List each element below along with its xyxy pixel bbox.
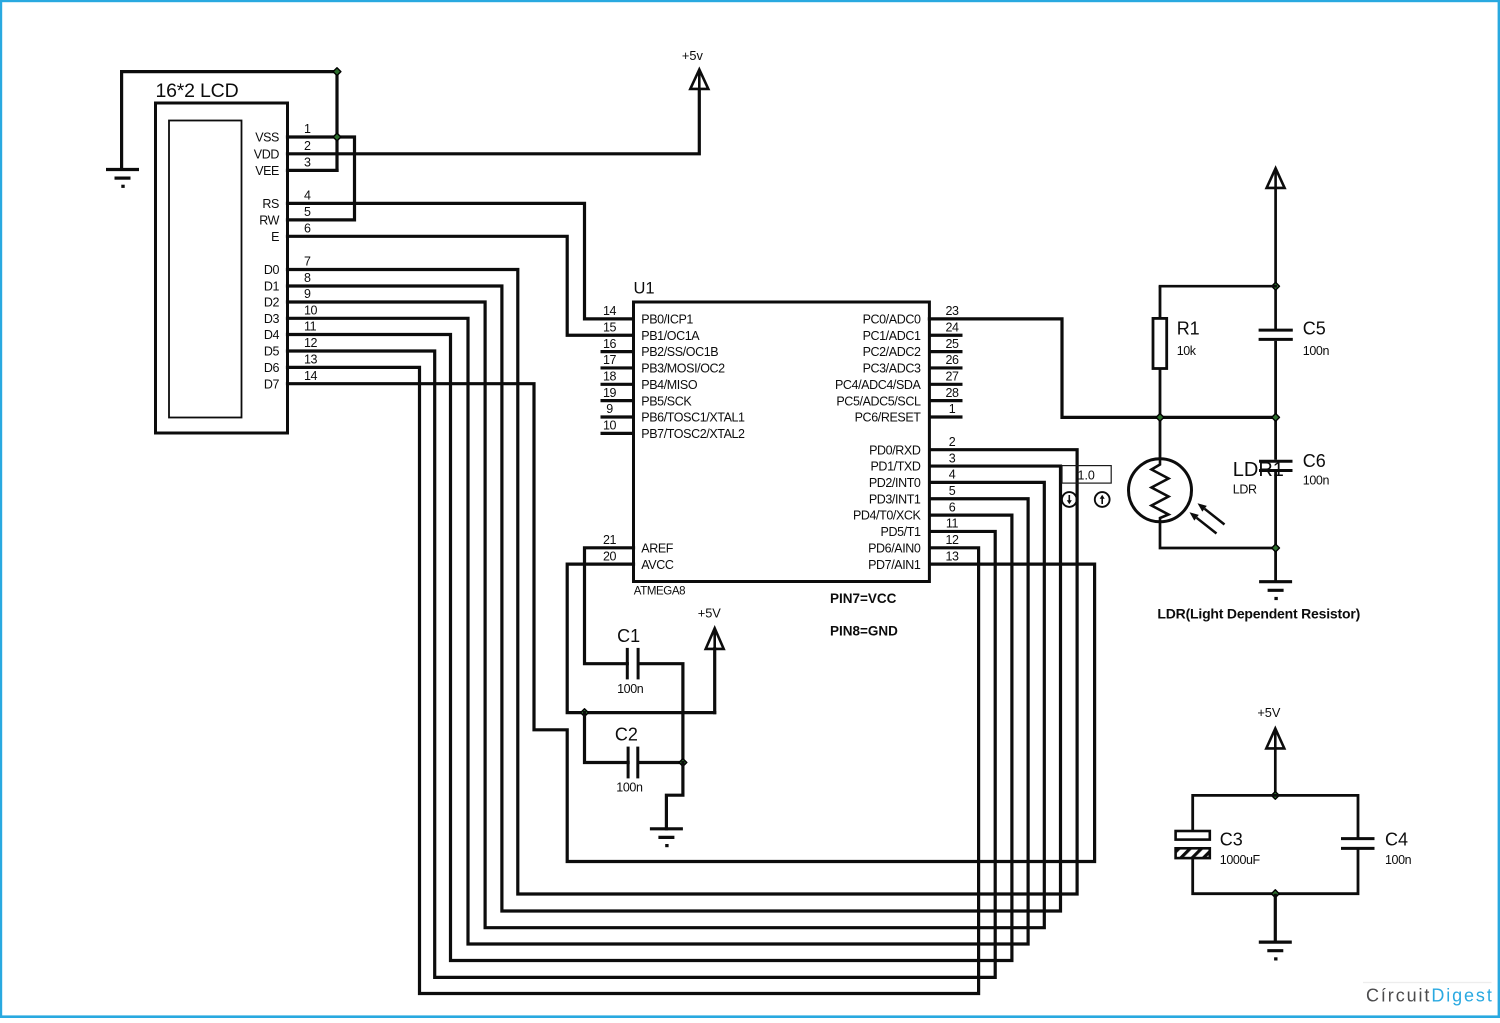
svg-text:100n: 100n (617, 682, 644, 696)
svg-text:100n: 100n (1303, 344, 1330, 358)
U1 pin 10 PB7/TOSC2/XTAL2 (601, 419, 746, 441)
wire D5 to PD5 (288, 351, 996, 977)
svg-text:R1: R1 (1177, 318, 1200, 338)
wire GND to LCD VSS net (122, 72, 337, 171)
svg-text:+5v: +5v (682, 48, 704, 63)
svg-text:17: 17 (603, 353, 617, 367)
svg-text:PC5/ADC5/SCL: PC5/ADC5/SCL (836, 394, 921, 408)
wire VDD to +5v (288, 89, 700, 154)
svg-text:6: 6 (949, 500, 956, 514)
svg-text:11: 11 (946, 517, 959, 531)
svg-text:U1: U1 (634, 280, 655, 298)
svg-text:7: 7 (304, 255, 311, 269)
svg-text:RS: RS (262, 197, 279, 211)
resistor R1 (1153, 286, 1167, 459)
wire +5V to C3/C4 top (1274, 748, 1277, 795)
wire +5V mid stem (713, 649, 716, 713)
C4 value 100n (1385, 853, 1412, 867)
LCD pin 14 D7 (264, 369, 318, 391)
note LDR(Light Dependent Resistor) (1157, 606, 1360, 622)
U1 pin 21 AREF (603, 533, 674, 555)
CircuitDigest logo (1363, 982, 1494, 1006)
svg-text:10k: 10k (1177, 344, 1197, 358)
svg-text:PD7/AIN1: PD7/AIN1 (868, 558, 921, 572)
power +5V supply top (690, 70, 708, 90)
svg-text:RW: RW (259, 214, 279, 228)
wire D2 to PD2 (288, 302, 1045, 928)
wire RS to U1 PB0 (288, 203, 634, 319)
svg-text:5: 5 (304, 205, 311, 219)
svg-text:26: 26 (945, 353, 959, 367)
svg-text:2: 2 (949, 435, 956, 449)
microcontroller U1 ATMEGA8 (634, 280, 930, 598)
capacitor C3 polarized (1176, 831, 1210, 858)
svg-text:3: 3 (949, 451, 956, 465)
junction divider at C5/C6 (1272, 414, 1280, 422)
U1 pin 13 PD7/AIN1 (868, 549, 959, 571)
svg-text:PD2/INT0: PD2/INT0 (869, 476, 921, 490)
svg-text:100n: 100n (1385, 853, 1412, 867)
wire D0 to PD0 (288, 270, 1078, 895)
svg-text:3: 3 (304, 156, 311, 170)
svg-text:13: 13 (304, 353, 318, 367)
svg-text:VSS: VSS (255, 131, 279, 145)
svg-text:28: 28 (945, 386, 959, 400)
R1 label (1177, 318, 1200, 338)
C3 label (1220, 829, 1243, 849)
svg-text:9: 9 (606, 402, 613, 416)
svg-text:14: 14 (603, 304, 617, 318)
net label +5V br net (1257, 705, 1281, 720)
svg-text:C6: C6 (1303, 451, 1326, 471)
wire PC0 to LDR divider node (929, 319, 1275, 418)
svg-text:PD5/T1: PD5/T1 (881, 525, 921, 539)
svg-text:PB2/SS/OC1B: PB2/SS/OC1B (641, 345, 718, 359)
C2 value 100n (616, 781, 643, 795)
junction AVCC/C2 node (581, 709, 589, 717)
U1 pin 28 PC5/ADC5/SCL (836, 386, 962, 408)
svg-text:8: 8 (304, 271, 311, 285)
junction top wire (333, 68, 341, 76)
power +5V supply bottom right (1266, 729, 1284, 749)
C5 label (1303, 318, 1326, 338)
LCD pin 10 D3 (264, 304, 318, 326)
wire C3/C4 loop bottom (1193, 850, 1358, 894)
U1 pin 15 PB1/OC1A (603, 320, 700, 342)
LCD pin 1 VSS (255, 122, 311, 144)
svg-text:+5V: +5V (1257, 705, 1281, 720)
svg-text:9: 9 (304, 287, 311, 301)
U1 pin 4 PD2/INT0 (869, 468, 956, 490)
LCD pin 13 D6 (264, 353, 318, 375)
svg-text:4: 4 (304, 189, 311, 203)
LDR1 light dependent resistor (1129, 459, 1192, 522)
probe arrow up indicator (1095, 492, 1110, 507)
svg-text:ATMEGA8: ATMEGA8 (634, 586, 685, 598)
LCD pin 3 VEE (255, 156, 311, 178)
U1 pin 2 PD0/RXD (869, 435, 956, 457)
svg-text:D2: D2 (264, 296, 280, 310)
probe readout 1.0 (1062, 466, 1111, 484)
svg-text:1: 1 (949, 402, 956, 416)
U1 pin 3 PD1/TXD (871, 451, 956, 473)
svg-text:PB3/MOSI/OC2: PB3/MOSI/OC2 (641, 362, 725, 376)
svg-text:PIN7=VCC: PIN7=VCC (830, 591, 897, 606)
junction R1 branch (1272, 282, 1280, 290)
C1 label (617, 626, 640, 646)
svg-text:LDR: LDR (1233, 483, 1257, 497)
ground near LCD (106, 170, 139, 187)
svg-text:PB5/SCK: PB5/SCK (641, 394, 692, 408)
LDR1 value LDR (1233, 483, 1257, 497)
capacitor C4 (1341, 839, 1375, 849)
LCD pin 2 VDD (254, 139, 311, 161)
power +5V supply middle (706, 628, 724, 649)
svg-text:AREF: AREF (641, 541, 674, 555)
svg-text:14: 14 (304, 369, 318, 383)
svg-text:C2: C2 (615, 724, 638, 744)
svg-text:PC6/RESET: PC6/RESET (855, 411, 922, 425)
svg-text:PIN8=GND: PIN8=GND (830, 624, 898, 639)
svg-text:1: 1 (304, 122, 311, 136)
svg-text:PD1/TXD: PD1/TXD (871, 460, 921, 474)
LCD pin 11 D4 (264, 320, 317, 342)
junction divider at R1 (1156, 414, 1164, 422)
svg-text:D1: D1 (264, 280, 280, 294)
LDR light arrows (1190, 503, 1225, 533)
U1 pin 5 PD3/INT1 (869, 484, 956, 506)
capacitor C2 (628, 747, 638, 779)
wire E to U1 PB1 (288, 236, 634, 335)
svg-text:AVCC: AVCC (641, 558, 674, 572)
U1 pin 9 PB6/TOSC1/XTAL1 (601, 402, 746, 424)
svg-text:15: 15 (603, 320, 617, 334)
svg-text:23: 23 (945, 304, 959, 318)
svg-text:10: 10 (304, 304, 318, 318)
wire VEE stub (288, 169, 338, 172)
svg-text:21: 21 (603, 533, 617, 547)
junction LDR gnd node (1272, 544, 1280, 552)
U1 pin 1 PC6/RESET (855, 402, 963, 424)
wire AREF to C1 (585, 548, 634, 664)
LCD pin 7 D0 (264, 255, 311, 277)
svg-text:D7: D7 (264, 377, 280, 391)
svg-text:PB7/TOSC2/XTAL2: PB7/TOSC2/XTAL2 (641, 427, 745, 441)
wire VSS to RW (288, 137, 355, 220)
C1 value 100n (617, 682, 644, 696)
svg-text:PD6/AIN0: PD6/AIN0 (868, 541, 921, 555)
ground under C6 (1259, 582, 1292, 599)
LCD pin 9 D2 (264, 287, 311, 309)
svg-text:VDD: VDD (254, 147, 280, 161)
LCD pin 6 E (271, 222, 311, 244)
wire AVCC to +5V (567, 564, 715, 712)
svg-text:2: 2 (304, 139, 311, 153)
svg-text:D6: D6 (264, 361, 280, 375)
capacitor C5 (1259, 330, 1293, 460)
svg-text:PB0/ICP1: PB0/ICP1 (641, 313, 693, 327)
svg-text:1.0: 1.0 (1078, 468, 1095, 482)
svg-text:PC3/ADC3: PC3/ADC3 (863, 362, 921, 376)
svg-text:13: 13 (945, 549, 959, 563)
U1 pin 18 PB4/MISO (601, 370, 698, 392)
note PIN8=GND (830, 624, 898, 639)
svg-text:D0: D0 (264, 263, 280, 277)
wire D7 to PD7 (288, 384, 1095, 862)
C5 value 100n (1303, 344, 1330, 358)
svg-text:CírcuitDigest: CírcuitDigest (1366, 986, 1494, 1006)
svg-text:18: 18 (603, 370, 617, 384)
svg-text:E: E (271, 230, 279, 244)
C6 value 100n (1303, 474, 1330, 488)
U1 pin 19 PB5/SCK (601, 386, 693, 408)
LCD pin 5 RW (259, 205, 311, 227)
svg-text:PB4/MISO: PB4/MISO (641, 378, 698, 392)
U1 pin 25 PC2/ADC2 (863, 337, 963, 359)
svg-text:5: 5 (949, 484, 956, 498)
wire C1 right to C2 right (640, 664, 683, 763)
net label +5v net (682, 48, 704, 63)
svg-text:12: 12 (945, 533, 959, 547)
svg-text:VEE: VEE (255, 164, 279, 178)
U1 pin 26 PC3/ADC3 (863, 353, 963, 375)
C3 value 1000uF (1220, 853, 1261, 867)
U1 pin 14 PB0/ICP1 (603, 304, 693, 326)
wire +5V to C5/R1 (1274, 188, 1277, 329)
wire C2 to ground (666, 763, 683, 829)
svg-text:16*2 LCD: 16*2 LCD (156, 80, 239, 102)
svg-text:PC1/ADC1: PC1/ADC1 (863, 329, 921, 343)
svg-text:19: 19 (603, 386, 617, 400)
svg-text:27: 27 (945, 370, 959, 384)
svg-text:D5: D5 (264, 345, 280, 359)
junction C2 gnd node (679, 759, 687, 767)
svg-text:PC4/ADC4/SDA: PC4/ADC4/SDA (835, 378, 922, 392)
C2 label (615, 724, 638, 744)
U1 pin 17 PB3/MOSI/OC2 (601, 353, 726, 375)
svg-text:100n: 100n (1303, 474, 1330, 488)
wire C2 left (585, 713, 629, 763)
svg-text:24: 24 (945, 320, 959, 334)
ground under C3/C4 (1259, 894, 1292, 959)
wire D6 to PD6 (288, 367, 979, 993)
svg-text:PD4/T0/XCK: PD4/T0/XCK (853, 509, 922, 523)
junction C3/C4 bottom node (1271, 890, 1279, 898)
svg-text:D3: D3 (264, 312, 280, 326)
svg-text:100n: 100n (616, 781, 643, 795)
wire R1 branch (1160, 285, 1276, 288)
svg-text:C1: C1 (617, 626, 640, 646)
net label +5V mid net (698, 606, 722, 621)
U1 pin 12 PD6/AIN0 (868, 533, 959, 555)
svg-text:D4: D4 (264, 328, 280, 342)
R1 value 10k (1177, 344, 1197, 358)
LCD module LCD1 16*2 LCD (156, 80, 288, 433)
svg-text:PB1/OC1A: PB1/OC1A (641, 329, 700, 343)
wire D1 to PD1 (288, 286, 1061, 911)
U1 pin 16 PB2/SS/OC1B (601, 337, 719, 359)
svg-text:16: 16 (603, 337, 617, 351)
wire D4 to PD4 (288, 335, 1012, 961)
svg-text:C5: C5 (1303, 318, 1326, 338)
LCD pin 4 RS (262, 189, 311, 211)
LCD pin 12 D5 (264, 336, 318, 358)
probe arrow down indicator (1062, 492, 1077, 507)
C6 label (1303, 451, 1326, 471)
U1 pin 6 PD4/T0/XCK (853, 500, 956, 522)
svg-text:10: 10 (603, 419, 617, 433)
C4 label (1385, 829, 1408, 849)
junction VSS node (333, 133, 341, 141)
wire C3/C4 loop top (1193, 795, 1358, 837)
U1 pin 24 PC1/ADC1 (863, 320, 963, 342)
wire D3 to PD3 (288, 318, 1029, 944)
wire LDR bottom to C6 bottom (1160, 522, 1276, 548)
capacitor C1 (627, 648, 638, 680)
svg-text:PC2/ADC2: PC2/ADC2 (863, 345, 921, 359)
svg-text:PD0/RXD: PD0/RXD (869, 443, 921, 457)
ground under C2 (650, 829, 683, 846)
svg-text:C3: C3 (1220, 829, 1243, 849)
wire C2 right (639, 761, 683, 764)
svg-text:LDR(Light Dependent Resistor): LDR(Light Dependent Resistor) (1157, 606, 1360, 622)
svg-text:C4: C4 (1385, 829, 1408, 849)
U1 pin 20 AVCC (603, 549, 674, 571)
svg-text:11: 11 (304, 320, 317, 334)
svg-text:PC0/ADC0: PC0/ADC0 (863, 313, 921, 327)
svg-text:6: 6 (304, 222, 311, 236)
capacitor C6 (1259, 461, 1293, 581)
U1 pin 23 PC0/ADC0 (863, 304, 959, 326)
svg-text:PB6/TOSC1/XTAL1: PB6/TOSC1/XTAL1 (641, 411, 745, 425)
svg-text:+5V: +5V (698, 606, 722, 621)
LCD pin 8 D1 (264, 271, 311, 293)
U1 pin 11 PD5/T1 (881, 517, 959, 539)
note PIN7=VCC (830, 591, 897, 606)
power +5V supply right top (1267, 168, 1285, 188)
LDR1 label (1233, 459, 1284, 481)
svg-text:20: 20 (603, 549, 617, 563)
svg-text:12: 12 (304, 336, 318, 350)
svg-text:4: 4 (949, 468, 956, 482)
junction C3/C4 top node (1271, 792, 1279, 800)
svg-text:25: 25 (945, 337, 959, 351)
svg-text:1000uF: 1000uF (1220, 853, 1261, 867)
U1 pin 27 PC4/ADC4/SDA (835, 370, 963, 392)
svg-text:PD3/INT1: PD3/INT1 (869, 492, 921, 506)
